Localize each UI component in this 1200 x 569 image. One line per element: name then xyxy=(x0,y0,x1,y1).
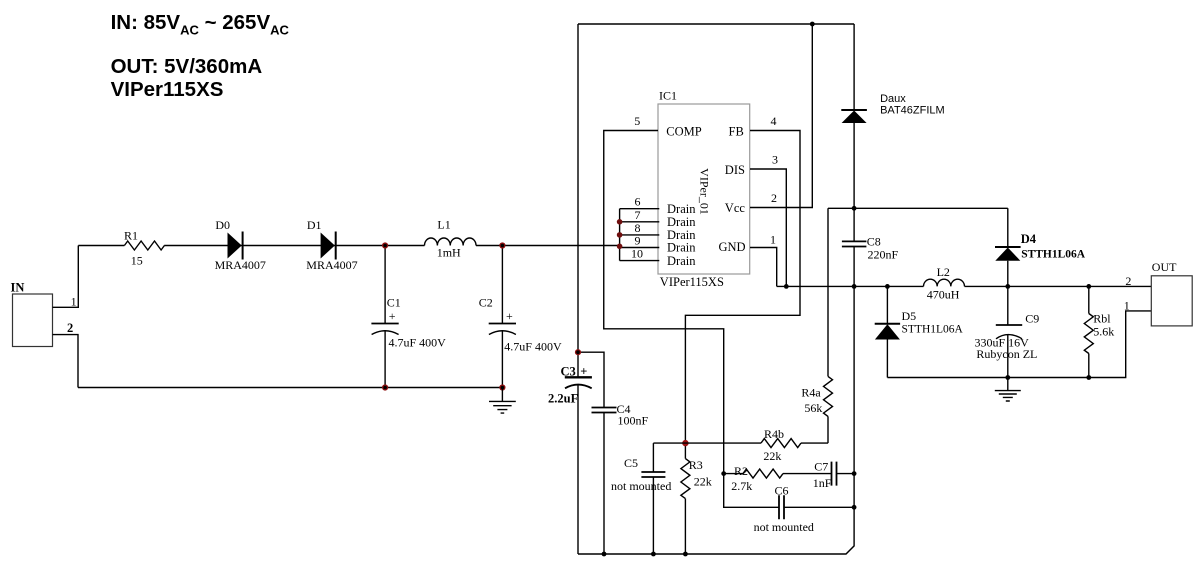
svg-text:100nF: 100nF xyxy=(618,414,649,428)
svg-text:9: 9 xyxy=(635,234,641,248)
svg-text:R3: R3 xyxy=(689,458,703,472)
wire R4b line from C5 corner to R4a xyxy=(653,442,828,444)
svg-text:STTH1L06A: STTH1L06A xyxy=(902,323,964,335)
wire main rail segment left xyxy=(78,245,124,247)
wire top rail xyxy=(578,23,854,25)
diode D0 xyxy=(228,233,242,259)
svg-text:3: 3 xyxy=(772,153,778,167)
capacitor C2 wires xyxy=(501,246,503,388)
svg-text:L2: L2 xyxy=(937,265,950,279)
svg-text:VIPer_01: VIPer_01 xyxy=(698,168,712,215)
junction drain pin 9 rail xyxy=(617,244,623,250)
svg-text:220nF: 220nF xyxy=(868,247,899,261)
svg-text:VIPer115XS: VIPer115XS xyxy=(660,275,724,289)
svg-text:IN: 85VAC ~ 265VAC: IN: 85VAC ~ 265VAC xyxy=(111,11,290,38)
capacitor C5 plates xyxy=(641,472,665,477)
svg-text:C2: C2 xyxy=(479,295,493,309)
svg-text:2.7k: 2.7k xyxy=(731,479,752,493)
junction drain pin 7 xyxy=(617,219,623,225)
svg-text:STTH1L06A: STTH1L06A xyxy=(1021,248,1086,260)
svg-text:R4a: R4a xyxy=(801,385,821,399)
svg-text:+: + xyxy=(506,309,513,323)
capacitor C8 plates xyxy=(842,241,867,246)
svg-text:1: 1 xyxy=(71,295,77,309)
ground symbol under C2 xyxy=(489,388,516,414)
wire IN pin2 down to bottom return rail xyxy=(53,335,79,388)
svg-text:56k: 56k xyxy=(804,401,822,415)
wire Vcc pin to top rail xyxy=(750,24,812,208)
junction C1 bottom xyxy=(382,384,388,390)
capacitor C3 plates xyxy=(565,376,592,378)
wire C3 bottom to bottom rail xyxy=(577,385,579,555)
junction C2 top xyxy=(499,242,505,248)
svg-text:GND: GND xyxy=(719,240,746,254)
svg-text:10: 10 xyxy=(631,247,643,261)
diode D4 wires xyxy=(1007,208,1009,286)
wire FB net xyxy=(685,131,800,444)
diode D4 symbol xyxy=(995,246,1021,248)
junction Rbl bottom xyxy=(1086,375,1091,380)
svg-text:1: 1 xyxy=(770,233,776,247)
svg-text:DIS: DIS xyxy=(725,163,745,177)
svg-text:VIPer115XS: VIPer115XS xyxy=(111,78,224,101)
svg-text:Rubycon ZL: Rubycon ZL xyxy=(976,347,1037,361)
svg-text:R4b: R4b xyxy=(764,427,784,441)
svg-text:R1: R1 xyxy=(124,228,138,242)
junction drain pin 8 xyxy=(617,232,623,238)
wire switch rail xyxy=(777,285,1152,287)
svg-text:not mounted: not mounted xyxy=(754,520,814,534)
junction D5 top switch rail xyxy=(885,284,890,289)
wire GND pin to switch rail xyxy=(750,248,777,287)
wire C3 node branch to C4 xyxy=(578,352,604,554)
svg-text:4: 4 xyxy=(771,114,777,128)
connector J-OUT box xyxy=(1151,276,1192,326)
connector J-IN box xyxy=(13,294,53,347)
wire IN pin1 to main rail xyxy=(53,246,79,308)
diode D5 wires xyxy=(886,286,888,377)
diode Daux wires xyxy=(853,24,855,208)
junction C5 bottom rail xyxy=(651,552,656,557)
svg-text:5.6k: 5.6k xyxy=(1093,325,1114,339)
capacitor C6 plates xyxy=(779,495,784,519)
junction Daux anode net A xyxy=(852,206,857,211)
svg-text:5: 5 xyxy=(634,114,640,128)
svg-text:IC1: IC1 xyxy=(659,89,677,103)
svg-text:15: 15 xyxy=(131,253,143,267)
junction R3 bottom rail xyxy=(683,552,688,557)
resistor R3 wires xyxy=(684,443,686,554)
svg-text:not mounted: not mounted xyxy=(611,479,671,493)
resistor R2 zigzag xyxy=(743,469,783,478)
resistor Rbl zigzag xyxy=(1084,314,1093,354)
diode D1 xyxy=(321,233,335,259)
svg-text:+: + xyxy=(580,364,587,378)
diode Daux symbol xyxy=(841,109,867,111)
wire bottom rail with chamfer up right side xyxy=(578,286,854,554)
svg-text:OUT: 5V/360mA: OUT: 5V/360mA xyxy=(111,55,263,78)
svg-text:D5: D5 xyxy=(902,309,917,323)
wire net A horizontal xyxy=(828,207,1008,209)
capacitor C9 wires xyxy=(1007,286,1009,377)
svg-text:Drain: Drain xyxy=(667,215,696,229)
svg-text:IN: IN xyxy=(11,281,25,295)
resistor R2 wires xyxy=(724,473,832,475)
svg-text:C9: C9 xyxy=(1025,312,1039,326)
ground symbol output xyxy=(995,378,1021,402)
svg-text:4.7uF 400V: 4.7uF 400V xyxy=(504,340,562,354)
wire left loop vertical to C3 xyxy=(577,24,579,377)
wire COMP net after C6 xyxy=(784,506,854,508)
resistor R3 zigzag xyxy=(681,459,690,499)
junction Rbl top xyxy=(1086,284,1091,289)
svg-text:7: 7 xyxy=(635,208,641,222)
junction C3 node xyxy=(575,349,581,355)
wire main rail segment right to drain bus xyxy=(476,245,620,247)
svg-text:+: + xyxy=(389,309,396,323)
svg-text:1mH: 1mH xyxy=(437,246,461,260)
svg-text:2: 2 xyxy=(67,321,73,335)
svg-text:OUT: OUT xyxy=(1152,260,1177,274)
junction Vcc top rail xyxy=(810,22,815,27)
junction C1 top xyxy=(382,242,388,248)
junction D4 switch rail xyxy=(1005,284,1010,289)
capacitor C1 plates xyxy=(371,323,398,325)
resistor R4b zigzag xyxy=(761,439,801,448)
wire C7 to right loop xyxy=(837,473,855,475)
svg-text:2: 2 xyxy=(1125,274,1131,288)
wire R4a vertical line xyxy=(827,208,829,443)
svg-text:BAT46ZFILM: BAT46ZFILM xyxy=(880,105,945,117)
svg-text:2: 2 xyxy=(771,191,777,205)
inductor L2 xyxy=(924,279,965,286)
svg-text:FB: FB xyxy=(729,124,744,138)
svg-text:D0: D0 xyxy=(215,218,230,232)
resistor R1 xyxy=(124,241,164,250)
svg-text:C3: C3 xyxy=(561,364,576,378)
svg-text:L1: L1 xyxy=(437,218,450,232)
svg-text:1nF: 1nF xyxy=(813,476,832,490)
svg-text:C5: C5 xyxy=(624,456,638,470)
capacitor C5 wires xyxy=(652,443,654,554)
capacitor C2 plates xyxy=(489,323,516,325)
junction C6 right loop xyxy=(852,505,857,510)
junction DIS switch rail xyxy=(784,284,789,289)
svg-text:COMP: COMP xyxy=(666,124,701,138)
junction C7 right loop xyxy=(852,471,857,476)
wire main rail segment middle xyxy=(164,245,424,247)
capacitor C4 plates xyxy=(592,408,617,413)
wire output bottom rail xyxy=(887,311,1151,378)
inductor L1 xyxy=(425,238,477,246)
svg-text:Drain: Drain xyxy=(667,202,696,216)
capacitor C8 wires xyxy=(853,208,855,286)
junction C8 bottom switch rail xyxy=(852,284,857,289)
capacitor C9 plates xyxy=(996,324,1022,326)
IC U1 VIPer115XS box xyxy=(658,104,750,274)
svg-text:C1: C1 xyxy=(387,295,401,309)
svg-text:22k: 22k xyxy=(694,474,712,488)
svg-text:C8: C8 xyxy=(867,234,881,248)
junction C9 bottom xyxy=(1005,375,1010,380)
resistor Rbl wires xyxy=(1088,286,1090,377)
wire drain pin stubs and bus xyxy=(620,209,660,261)
svg-text:4.7uF 400V: 4.7uF 400V xyxy=(389,336,447,350)
capacitor C7 plates xyxy=(832,462,837,486)
junction C2 bottom xyxy=(499,384,505,390)
svg-text:R2: R2 xyxy=(734,464,748,478)
capacitor C1 wires xyxy=(384,246,386,388)
svg-text:C6: C6 xyxy=(775,483,789,497)
svg-text:1: 1 xyxy=(1124,299,1130,313)
junction FB R3 R4b node xyxy=(682,440,688,446)
wire COMP net xyxy=(604,131,779,508)
svg-text:6: 6 xyxy=(635,195,641,209)
svg-text:Rbl: Rbl xyxy=(1093,312,1111,326)
svg-text:Drain: Drain xyxy=(667,254,696,268)
junction R2 left COMP line xyxy=(721,471,726,476)
svg-text:Vcc: Vcc xyxy=(725,201,746,215)
svg-text:MRA4007: MRA4007 xyxy=(306,258,357,272)
svg-text:D4: D4 xyxy=(1021,232,1037,246)
diode D5 symbol xyxy=(875,323,900,325)
svg-text:22k: 22k xyxy=(763,449,781,463)
svg-text:Daux: Daux xyxy=(880,93,906,105)
resistor R4a zigzag xyxy=(824,376,833,416)
svg-text:470uH: 470uH xyxy=(927,287,960,301)
wire DIS net xyxy=(750,169,786,286)
junction C4 bottom rail xyxy=(602,552,607,557)
wire bottom return rail xyxy=(78,387,502,389)
svg-text:MRA4007: MRA4007 xyxy=(215,258,266,272)
svg-text:C7: C7 xyxy=(814,460,828,474)
svg-text:2.2uF: 2.2uF xyxy=(548,391,579,405)
svg-text:Drain: Drain xyxy=(667,241,696,255)
svg-text:D1: D1 xyxy=(307,218,322,232)
